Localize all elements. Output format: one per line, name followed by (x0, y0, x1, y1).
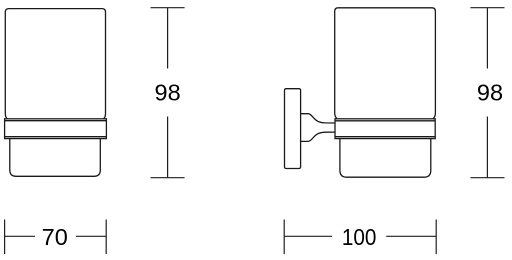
bracket arm (side view) (301, 114, 335, 142)
wall plate (side view) (285, 89, 301, 169)
dimension 100 (right view depth) (284, 220, 436, 255)
dimension 70 (left view width) (5, 220, 107, 255)
dimension 98 (right view) (470, 8, 504, 178)
dimension 98 (left view) (151, 8, 185, 178)
holder cup base (side view) (340, 139, 431, 178)
svg-text:70: 70 (42, 224, 68, 250)
holder ring (side view) (335, 119, 435, 139)
svg-text:98: 98 (477, 80, 503, 106)
holder ring (front view) (5, 119, 107, 139)
tumbler cup (front view) (5, 9, 105, 119)
svg-text:100: 100 (342, 224, 377, 250)
tumbler cup (side view) (335, 8, 436, 119)
holder cup base (front view) (10, 139, 101, 177)
svg-text:98: 98 (155, 80, 181, 106)
